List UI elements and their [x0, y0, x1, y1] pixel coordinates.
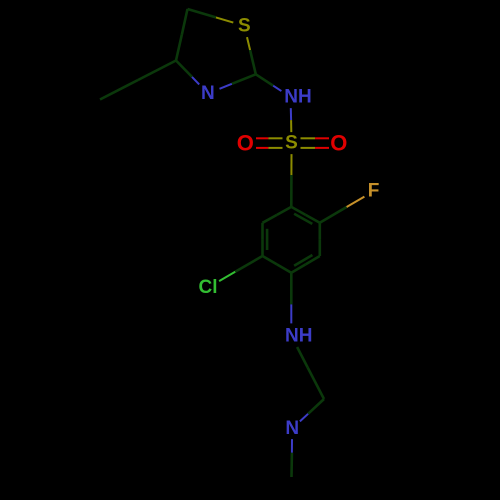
- bond C5-Cl half near C5: [235, 256, 262, 272]
- aromatic inner line C1=C2: [294, 214, 312, 224]
- S=O left line near O: [256, 147, 268, 149]
- bond C4-NHa half near NHa: [290, 304, 292, 323]
- aromatic inner line C5=C6: [266, 229, 269, 250]
- svg-text:NH: NH: [285, 325, 312, 346]
- bond C2-F half near C2: [320, 207, 347, 223]
- bond C6-C1 half near C6: [263, 215, 277, 223]
- bond C3-C4 half near C4: [291, 264, 305, 272]
- bond C2t-NHs half near NHs: [273, 86, 281, 91]
- bond C2-C3 half near C3: [318, 239, 321, 256]
- svg-text:S: S: [238, 15, 251, 36]
- aromatic inner line C3=C4: [294, 255, 312, 266]
- svg-text:N: N: [285, 418, 299, 439]
- bond V1-Nam half near V1: [308, 399, 324, 414]
- bond NHa-V1 half near V1: [308, 367, 324, 399]
- bond C5-Cl half near Cl: [219, 272, 235, 281]
- bond Nam-Me_b half near Me_b: [290, 453, 293, 477]
- bond S1-C5t half near S1: [216, 17, 233, 22]
- bond S1-C2t half near S1: [247, 37, 250, 50]
- bond C4-C5 half near C4: [277, 264, 291, 272]
- bond C5t-C4t half near C4t: [176, 35, 182, 61]
- svg-text:F: F: [368, 181, 380, 202]
- bond C4t-Me_t half near Me_t: [100, 80, 138, 100]
- bond C5-C6 half near C6: [261, 223, 264, 240]
- S=O right line near S: [301, 137, 316, 139]
- svg-text:O: O: [237, 131, 254, 156]
- bond C2t-NHs half near C2t: [256, 74, 273, 85]
- svg-text:O: O: [330, 131, 347, 156]
- svg-text:N: N: [201, 83, 215, 104]
- S=O left line near S: [268, 137, 282, 139]
- S=O right line near S: [301, 147, 316, 149]
- svg-text:Cl: Cl: [199, 277, 218, 298]
- S=O right line near O: [315, 147, 329, 149]
- S=O left line near O: [256, 137, 268, 139]
- bond C1-C2 half near C1: [291, 207, 305, 215]
- bond S1-C5t half near C5t: [188, 9, 216, 17]
- bond C4-NHa half near C4: [290, 273, 293, 305]
- bond C4t-N3 half near C4t: [176, 61, 192, 77]
- bond C2-C3 half near C2: [318, 223, 321, 240]
- bond C2-F half near F: [347, 197, 365, 207]
- svg-text:S: S: [285, 133, 298, 154]
- bond Ss-C1 half near Ss: [290, 154, 292, 175]
- bond S1-C2t half near C2t: [250, 50, 256, 74]
- bond C4t-Me_t half near C4t: [138, 61, 176, 81]
- bond C5-C6 half near C5: [261, 239, 264, 256]
- bond NHs-Ss half near NHs: [290, 108, 292, 120]
- S=O right line near O: [315, 137, 329, 139]
- bond Ss-C1 half near C1: [290, 175, 293, 207]
- bond NHa-V1 half near NHa: [297, 347, 308, 367]
- S=O left line near S: [268, 147, 282, 149]
- bond NHs-Ss half near Ss: [290, 120, 292, 132]
- bond V1-Nam half near Nam: [300, 414, 308, 422]
- bond C1-C2 half near C2: [306, 215, 320, 223]
- bond C6-C1 half near C1: [277, 207, 291, 215]
- bond Nam-Me_b half near Nam: [291, 439, 293, 453]
- bond C4-C5 half near C5: [263, 256, 277, 264]
- bond C5t-C4t half near C5t: [182, 9, 188, 35]
- bond N3-C2t half near N3: [220, 84, 232, 89]
- svg-text:NH: NH: [284, 87, 311, 108]
- bond C4t-N3 half near N3: [192, 77, 199, 85]
- bond C3-C4 half near C3: [306, 256, 320, 264]
- bond N3-C2t half near C2t: [232, 74, 256, 84]
